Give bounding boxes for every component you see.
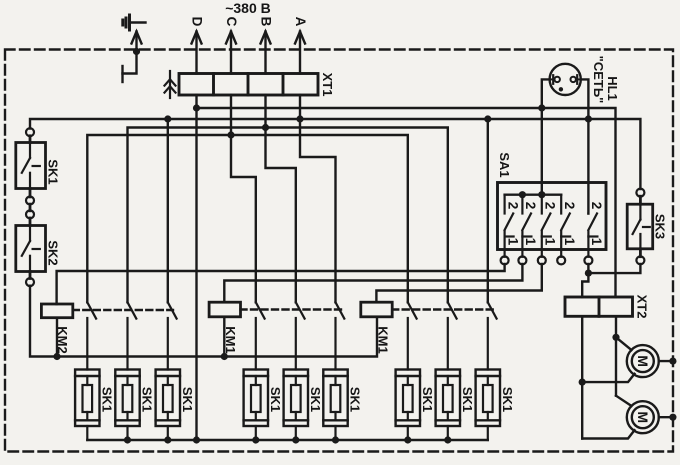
wire: phase A stub from XT1 [299, 95, 301, 119]
svg-text:SK1: SK1 [140, 387, 155, 412]
svg-text:SK1: SK1 [348, 387, 363, 412]
label M1 [635, 355, 651, 367]
label SA1 pin1 c2 [523, 238, 538, 246]
wire: phase C drop and jog to KM1 mid contact1 [231, 135, 256, 302]
KM1 mid contact 1 [256, 302, 265, 369]
label A [293, 17, 308, 27]
svg-text:XT1: XT1 [320, 73, 335, 97]
label XT2 [635, 295, 650, 319]
node: SA1 terminal5 and SK3 junction [585, 270, 592, 277]
wire: SA1 terminal3 to KM1 right coil [376, 264, 541, 302]
SA1 contact 1 [501, 195, 514, 265]
node: bottom bus e3 [164, 436, 171, 443]
svg-text:1: 1 [589, 238, 604, 246]
wire: motor2 to frame [659, 416, 673, 418]
node: earth junction on border [133, 48, 140, 55]
svg-text:2: 2 [523, 202, 538, 210]
node: bottom bus e6 [332, 436, 339, 443]
node: KM1 right contact3 tap on bus B [484, 115, 491, 122]
wire: KM2 coil bottom lead [56, 318, 58, 357]
label SA1 pin1 c1 [505, 238, 520, 246]
node: KM2 coil bottom on control rail [53, 353, 60, 360]
wire: KM2 contact3 drop from bus B [167, 119, 169, 302]
KM1 right contact 2 [448, 302, 457, 369]
node: KM1 mid coil bottom on control rail [221, 353, 228, 360]
node: motor2 frame dot [669, 414, 676, 421]
svg-text:SK1: SK1 [308, 387, 323, 412]
label XT1 [320, 73, 335, 97]
KM1 right contact 3 [488, 302, 497, 369]
svg-text:B: B [259, 17, 274, 27]
contactor coil KM2 [41, 304, 72, 318]
label HL1 [605, 76, 620, 101]
heater SK1 e2 [115, 370, 139, 441]
label SK1 [46, 159, 61, 184]
node: bottom bus phase D [193, 436, 200, 443]
svg-text:М: М [635, 355, 651, 367]
node: HL1 left lead on bus A [538, 104, 545, 111]
thermal switch SK3 [627, 189, 653, 265]
wire: motor1 to frame [659, 360, 673, 362]
label SA1 pin1 c3 [543, 238, 558, 246]
contactor coil KM1 right [361, 302, 392, 317]
wire: SK2 to control rail [30, 286, 377, 357]
node: SA1 bracket feed [538, 191, 545, 198]
heater SK1 e4 [244, 370, 268, 441]
svg-text:SK1: SK1 [99, 387, 114, 412]
wire: XT2 cell2 down [615, 316, 617, 395]
node: phase B junction on bus C [262, 124, 269, 131]
wire: bus D y=135 from KM2 contact1 to KM1 right contact1 [87, 135, 408, 302]
label heater e9 [500, 387, 515, 412]
label SA1 [497, 152, 512, 177]
label M2 [635, 411, 651, 423]
thermal switch SK1 [16, 128, 46, 204]
svg-text:A: A [293, 17, 308, 27]
KM1 middle linkage dashed line [241, 308, 342, 310]
phase B arrow [261, 32, 271, 74]
SA1 contact 2 [518, 195, 531, 265]
label SK3 [653, 214, 668, 239]
KM1 mid contact 2 [296, 302, 305, 369]
wire: branch to motor1 upper terminal [616, 337, 632, 350]
svg-text:SK1: SK1 [460, 387, 475, 412]
wire: phase B drop and jog to KM1 mid contact2 [266, 128, 296, 303]
label heater e7 [420, 387, 435, 412]
wire: SA1 common bracket [505, 193, 562, 195]
svg-text:2: 2 [589, 202, 604, 210]
node: bottom bus e2 [124, 436, 131, 443]
svg-text:1: 1 [523, 238, 538, 246]
svg-text:1: 1 [543, 238, 558, 246]
wire: XT2 cell1 down to motor loop [581, 316, 583, 438]
wire: bottom common bus [87, 439, 488, 441]
svg-text:SK1: SK1 [500, 387, 515, 412]
SA1 contact 3 [538, 195, 551, 265]
svg-text:SA1: SA1 [497, 152, 512, 177]
svg-text:2: 2 [543, 202, 558, 210]
label SA1 pin2 c5 [589, 202, 604, 210]
svg-text:"СЕТЬ": "СЕТЬ" [591, 56, 606, 104]
label SA1 pin2 c1 [505, 202, 520, 210]
node: KM2 contact3 tap on bus B [164, 115, 171, 122]
wire: phase C stub from XT1 [230, 95, 232, 135]
svg-text:2: 2 [505, 202, 520, 210]
label ~380 V [225, 0, 271, 16]
svg-text:1: 1 [505, 238, 520, 246]
wire: bus B (phase A rail) y=119 [30, 119, 640, 189]
wire: HL1 left lead to bus A and SA1 common [542, 79, 550, 194]
chassis frame connection [123, 52, 137, 83]
svg-text:SK3: SK3 [653, 214, 668, 239]
svg-text:D: D [190, 17, 205, 27]
svg-text:KM1: KM1 [223, 326, 238, 353]
label SA1 pin2 c4 [562, 202, 577, 210]
svg-text:SK1: SK1 [180, 387, 195, 412]
node: bottom bus e8 [444, 436, 451, 443]
label KM2 [55, 326, 70, 353]
label B [259, 17, 274, 27]
label heater e6 [348, 387, 363, 412]
KM1 right linkage dashed line [392, 308, 493, 310]
thermal switch SK2 [16, 204, 46, 286]
svg-text:HL1: HL1 [605, 76, 620, 101]
heater SK1 e5 [284, 370, 308, 441]
svg-text:2: 2 [562, 202, 577, 210]
label KM1 right [376, 326, 391, 353]
wire: phase B stub from XT1 [264, 95, 266, 128]
label heater e8 [460, 387, 475, 412]
heater SK1 e8 [436, 370, 460, 441]
wire: branch to motor2 upper terminal [616, 396, 632, 406]
node: HL1 right lead on bus B [585, 115, 592, 122]
svg-text:SK2: SK2 [46, 240, 61, 265]
heater SK1 e1 [75, 370, 99, 441]
label heater e4 [268, 387, 283, 412]
SA1 contact 5 [584, 214, 597, 265]
earth ground symbol [123, 15, 146, 30]
node: top motor tap on XT2 cell2 line [612, 334, 619, 341]
wire: SK3 bottom link [588, 264, 640, 273]
svg-text:C: C [224, 17, 239, 27]
node: SA1 bracket contact2 [519, 191, 526, 198]
label KM1 middle [223, 326, 238, 353]
KM2 linkage dashed line [73, 309, 173, 311]
terminal block XT1 [179, 74, 318, 96]
wire: SA1 terminal5 to XT2 cell1 [582, 264, 588, 297]
label heater e2 [140, 387, 155, 412]
wire: branch to motor1 lower terminal [582, 374, 634, 382]
svg-text:SK1: SK1 [420, 387, 435, 412]
node: motor1 frame dot [669, 358, 676, 365]
node: bus A tap on D line [193, 104, 200, 111]
wire: branch to motor2 lower terminal [582, 430, 634, 438]
label "СЕТЬ" [591, 56, 606, 104]
wire: SA1 terminal2 to KM1 mid coil [224, 264, 522, 302]
phase A arrow [295, 32, 305, 74]
contactor coil KM1 middle [209, 302, 240, 317]
label C [224, 17, 239, 27]
protective earth arrow through border [132, 32, 142, 52]
svg-text:~380 В: ~380 В [225, 0, 271, 16]
phase D arrow [192, 32, 202, 74]
indicator lamp HL1 [550, 64, 581, 95]
wire: KM1 mid coil bottom lead [223, 317, 225, 357]
KM2 contact 1 [87, 302, 96, 369]
svg-text:SK1: SK1 [268, 387, 283, 412]
KM2 contact 3 [168, 302, 177, 369]
KM1 mid contact 3 [336, 302, 345, 369]
label heater e5 [308, 387, 323, 412]
label SA1 pin1 c4 [562, 238, 577, 246]
svg-text:KM2: KM2 [55, 326, 70, 353]
label SK2 [46, 240, 61, 265]
KM1 right contact 1 [408, 302, 417, 369]
KM2 contact 2 [128, 302, 137, 369]
svg-text:XT2: XT2 [635, 295, 650, 319]
mode switch SA1 box [498, 183, 607, 250]
wire: SA1 terminal1 to KM2 coil [57, 264, 505, 304]
node: bottom bus e4 [252, 436, 259, 443]
heater SK1 e7 [396, 370, 420, 441]
label heater e1 [99, 387, 114, 412]
label SA1 pin2 c2 [523, 202, 538, 210]
connector chevron symbol at XT1 [165, 71, 176, 98]
node: phase C junction on bus D [227, 131, 234, 138]
label D [190, 17, 205, 27]
label SA1 pin1 c5 [589, 238, 604, 246]
wire: phase D vertical from XT1 to bottom bus [195, 95, 197, 440]
wire: phase A drop and jog to KM1 mid contact3 [300, 119, 336, 302]
heater SK1 e6 [323, 370, 347, 441]
svg-text:М: М [635, 411, 651, 423]
heater SK1 e3 [156, 370, 180, 441]
wire: bus A (neutral D rail) y=108 [197, 108, 616, 297]
node: motor1 tap on XT2 cell1 line [579, 379, 586, 386]
motor M2 [627, 401, 659, 433]
svg-text:KM1: KM1 [376, 326, 391, 353]
node: bottom bus e5 [292, 436, 299, 443]
node: phase A junction on bus B [296, 115, 303, 122]
SA1 contact 4 [557, 195, 570, 265]
node: bottom bus e7 [404, 436, 411, 443]
phase C arrow [226, 32, 236, 74]
heater SK1 e9 [476, 370, 500, 441]
svg-text:1: 1 [562, 238, 577, 246]
wire: HL1 right lead to bus B and SA1 contact5 [581, 79, 589, 213]
wire: bus C y=127.5 from KM2 contact2 to KM1 right contact2 [128, 128, 448, 303]
wire: KM1 right contact3 drop from bus B [487, 119, 489, 302]
label SA1 pin2 c3 [543, 202, 558, 210]
motor M1 [627, 345, 659, 377]
label heater e3 [180, 387, 195, 412]
svg-text:SK1: SK1 [46, 159, 61, 184]
terminal block XT2 [565, 297, 633, 316]
